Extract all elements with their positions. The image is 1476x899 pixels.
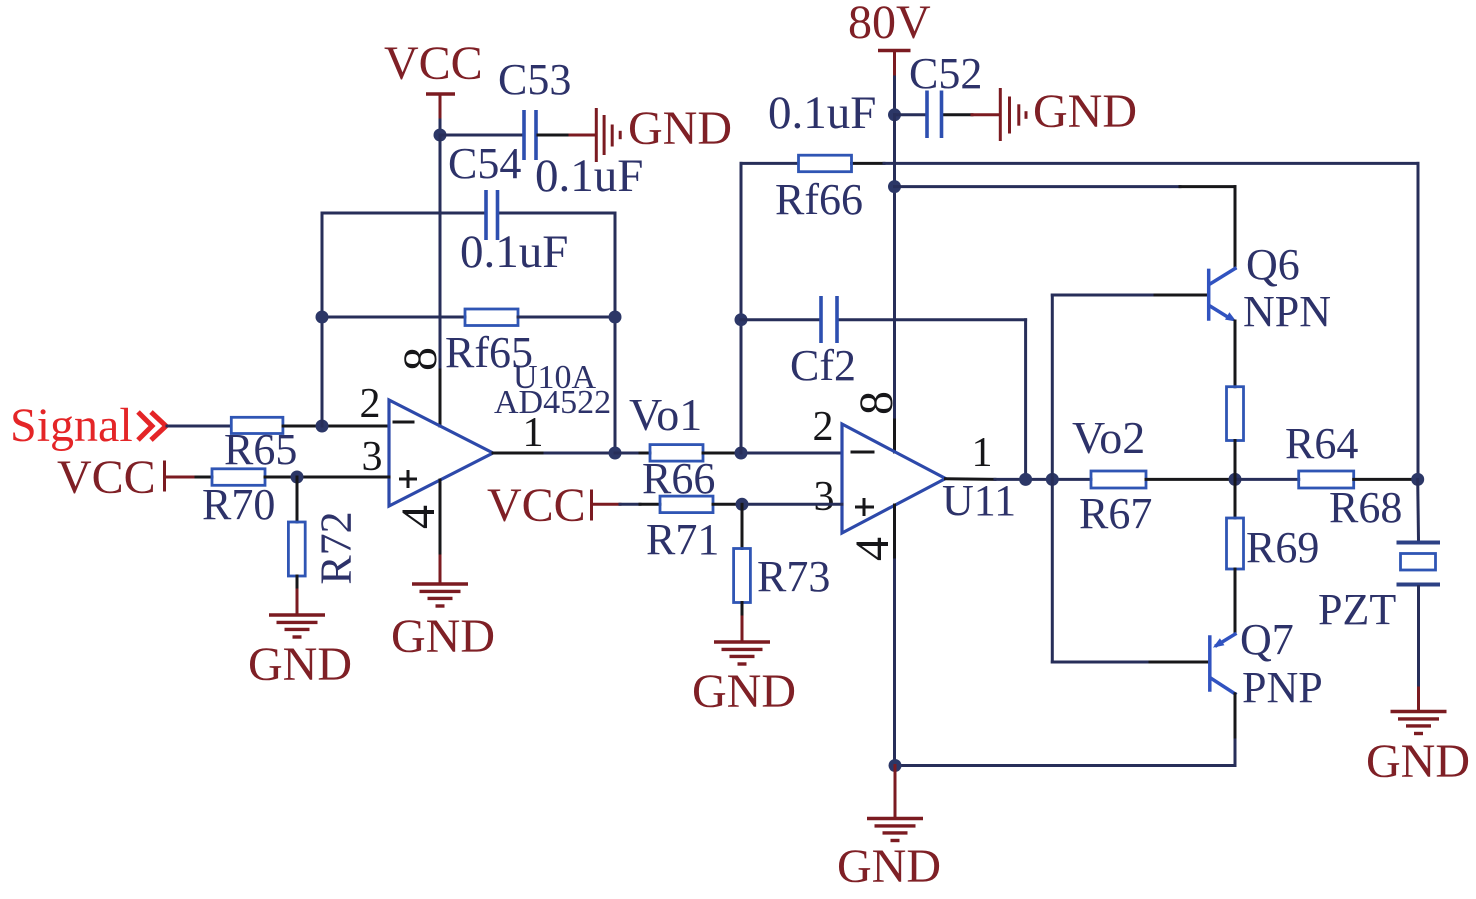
- svg-text:3: 3: [814, 474, 835, 520]
- svg-text:GND: GND: [628, 102, 732, 155]
- wire: [592, 503, 621, 506]
- svg-text:1: 1: [523, 410, 544, 456]
- junction: [1411, 473, 1424, 486]
- wire: [440, 134, 522, 137]
- svg-text:R69: R69: [1246, 523, 1319, 572]
- junction: [889, 759, 902, 772]
- junction: [316, 420, 329, 433]
- wire: [265, 476, 389, 479]
- transistor Q6: [1052, 294, 1155, 297]
- svg-text:C52: C52: [909, 49, 982, 98]
- svg-text:R65: R65: [224, 425, 297, 474]
- junction: [609, 311, 622, 324]
- resistor R70: [212, 469, 265, 486]
- ground: [412, 584, 468, 606]
- resistor R65: [231, 417, 283, 433]
- wire: [894, 766, 897, 818]
- ground: [1391, 712, 1447, 734]
- port tick: [163, 462, 166, 490]
- wire: [322, 316, 465, 319]
- svg-text:Rf66: Rf66: [775, 175, 863, 224]
- ground: [867, 819, 923, 841]
- wire Cf2 net: [741, 318, 819, 321]
- junction: [609, 447, 622, 460]
- svg-text:Signal: Signal: [10, 399, 133, 452]
- wire: [713, 503, 742, 506]
- svg-text:R64: R64: [1285, 419, 1358, 468]
- svg-text:1: 1: [972, 430, 993, 476]
- svg-text:Q6: Q6: [1246, 240, 1300, 289]
- junction: [1046, 473, 1059, 486]
- wire: [1417, 587, 1420, 689]
- svg-text:GND: GND: [837, 840, 941, 893]
- wire: [518, 316, 615, 319]
- wire: [500, 212, 615, 215]
- svg-text:VCC: VCC: [57, 451, 156, 504]
- svg-text:R70: R70: [202, 480, 275, 529]
- svg-text:C53: C53: [498, 55, 571, 104]
- wire: [895, 113, 926, 116]
- svg-text:80V: 80V: [848, 0, 931, 49]
- op-amp U11: [842, 424, 946, 533]
- wire 80V rail down: [893, 115, 896, 420]
- junction: [888, 180, 901, 193]
- wire: [1234, 441, 1237, 480]
- svg-text:PZT: PZT: [1318, 585, 1396, 634]
- svg-text:R72: R72: [312, 511, 361, 584]
- svg-text:Cf2: Cf2: [790, 341, 856, 390]
- junction: [1019, 473, 1032, 486]
- wire: [1234, 321, 1237, 387]
- svg-text:GND: GND: [391, 610, 495, 663]
- wire: [1416, 479, 1420, 540]
- junction: [735, 313, 748, 326]
- wire pin 8: [439, 135, 442, 370]
- ground (sideways): [596, 108, 620, 162]
- piezo PZT: [1397, 541, 1441, 545]
- svg-text:VCC: VCC: [384, 37, 483, 90]
- ground (sideways): [1000, 88, 1026, 141]
- svg-text:2: 2: [360, 381, 381, 427]
- wire pin 4 U11: [893, 505, 896, 560]
- svg-text:Vo1: Vo1: [629, 389, 702, 440]
- wire output U11: [946, 477, 996, 481]
- svg-text:U11: U11: [942, 476, 1016, 525]
- wire: [322, 212, 484, 215]
- resistor R67: [1091, 471, 1146, 488]
- capacitor C52: [925, 91, 929, 139]
- wire: [283, 425, 389, 428]
- port tick: [590, 491, 593, 519]
- resistor R66: [650, 445, 703, 462]
- svg-text:GND: GND: [248, 638, 352, 691]
- svg-text:2: 2: [813, 404, 834, 450]
- wire: [538, 134, 570, 137]
- svg-text:VCC: VCC: [487, 479, 586, 532]
- wire pin 4: [439, 480, 442, 556]
- resistor R69: [1234, 479, 1237, 518]
- capacitor C53: [522, 110, 526, 160]
- svg-text:Q7: Q7: [1240, 615, 1294, 664]
- capacitor C54: [484, 190, 488, 240]
- wire: [167, 425, 231, 428]
- wire Rf66 net: [741, 162, 798, 165]
- svg-text:0.1uF: 0.1uF: [460, 226, 568, 278]
- svg-text:R71: R71: [646, 515, 719, 564]
- svg-text:R68: R68: [1329, 483, 1402, 532]
- junction: [888, 108, 901, 121]
- wire: [1354, 478, 1418, 481]
- ground: [714, 642, 770, 664]
- port arrow: [138, 412, 166, 440]
- wire: [1146, 478, 1235, 481]
- wire: [321, 213, 324, 426]
- junction: [1229, 473, 1242, 486]
- svg-text:PNP: PNP: [1242, 663, 1323, 712]
- wire: [703, 452, 741, 455]
- capacitor Cf2: [819, 296, 823, 343]
- svg-text:8: 8: [394, 347, 447, 371]
- junction: [434, 129, 447, 142]
- svg-text:Vo2: Vo2: [1072, 412, 1145, 463]
- wire: [1235, 478, 1299, 481]
- svg-text:4: 4: [846, 537, 899, 561]
- junction: [735, 447, 748, 460]
- wire: [165, 476, 197, 479]
- svg-text:3: 3: [362, 434, 383, 480]
- wire: [895, 764, 1235, 767]
- wire: [740, 163, 743, 453]
- resistor Rf65: [465, 309, 518, 326]
- svg-text:GND: GND: [692, 665, 796, 718]
- svg-text:GND: GND: [1033, 85, 1137, 138]
- resistor R64: [1299, 471, 1354, 488]
- svg-text:R67: R67: [1079, 489, 1152, 538]
- resistor R73: [741, 504, 744, 548]
- svg-text:GND: GND: [1366, 735, 1470, 788]
- svg-text:NPN: NPN: [1243, 287, 1331, 336]
- wire: [615, 452, 640, 455]
- svg-text:AD4522: AD4522: [494, 384, 611, 421]
- ground: [269, 615, 325, 637]
- wire: [1234, 694, 1237, 740]
- wire: [614, 213, 617, 453]
- wire base net: [1051, 295, 1054, 662]
- svg-text:4: 4: [392, 505, 445, 529]
- junction: [316, 311, 329, 324]
- svg-text:8: 8: [850, 391, 903, 415]
- junction: [736, 498, 749, 511]
- wire output U10A: [493, 452, 545, 455]
- transistor Q7: [1052, 661, 1150, 664]
- resistor Rf66: [799, 155, 852, 172]
- svg-text:C54: C54: [448, 139, 521, 188]
- svg-text:0.1uF: 0.1uF: [535, 150, 643, 202]
- op-amp U10A: [389, 400, 493, 506]
- resistor R72: [296, 477, 299, 522]
- wire Q6 collector net: [895, 185, 1181, 188]
- svg-text:0.1uF: 0.1uF: [768, 87, 876, 139]
- svg-text:R73: R73: [757, 552, 830, 601]
- resistor R71: [660, 496, 713, 512]
- junction: [291, 471, 304, 484]
- resistor (Q6 emitter): [1227, 387, 1244, 441]
